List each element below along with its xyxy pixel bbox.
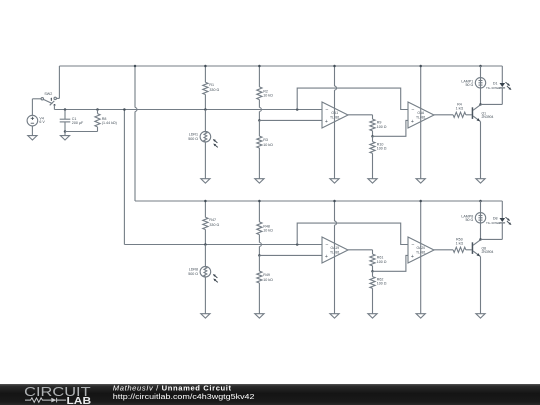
svg-text:−: −: [325, 107, 328, 113]
svg-text:R1: R1: [209, 83, 214, 87]
svg-text:+: +: [411, 254, 414, 260]
svg-text:R9: R9: [377, 120, 382, 124]
svg-text:(1.44 kΩ): (1.44 kΩ): [102, 121, 117, 125]
svg-text:50 Ω: 50 Ω: [466, 218, 474, 222]
svg-text:+: +: [325, 254, 328, 260]
svg-text:R49: R49: [263, 273, 270, 277]
svg-text:10 kΩ: 10 kΩ: [263, 143, 273, 147]
svg-text:1 kΩ: 1 kΩ: [456, 242, 464, 246]
svg-text:100 Ω: 100 Ω: [377, 260, 387, 264]
svg-text:200 µF: 200 µF: [72, 121, 84, 125]
svg-text:http://circuitlab.com/c4h3wgtg: http://circuitlab.com/c4h3wgtg5kv42: [113, 392, 255, 401]
svg-text:50 Ω: 50 Ω: [466, 83, 474, 87]
svg-text:100 Ω: 100 Ω: [377, 147, 387, 151]
svg-text:100 Ω: 100 Ω: [377, 125, 387, 129]
svg-text:LDR8: LDR8: [189, 267, 198, 271]
svg-text:330 Ω: 330 Ω: [209, 223, 219, 227]
svg-text:500 Ω: 500 Ω: [188, 137, 198, 141]
svg-text:+: +: [325, 119, 328, 125]
svg-text:LDR1: LDR1: [189, 132, 198, 136]
svg-text:2N3904: 2N3904: [482, 115, 494, 119]
svg-text:+: +: [411, 119, 414, 125]
svg-text:SW2: SW2: [44, 92, 52, 96]
svg-text:6 V: 6 V: [39, 120, 45, 124]
svg-text:R47: R47: [209, 218, 216, 222]
svg-text:2N3904: 2N3904: [482, 250, 494, 254]
svg-text:−: −: [325, 242, 328, 248]
svg-text:TIL-307EE: TIL-307EE: [486, 221, 500, 225]
svg-text:R10: R10: [377, 142, 384, 146]
svg-text:100 Ω: 100 Ω: [377, 282, 387, 286]
svg-text:R61: R61: [377, 255, 384, 259]
svg-text:−: −: [411, 242, 414, 248]
svg-text:1 kΩ: 1 kΩ: [456, 107, 464, 111]
svg-text:10 kΩ: 10 kΩ: [263, 278, 273, 282]
svg-text:10 kΩ: 10 kΩ: [263, 94, 273, 98]
svg-text:R62: R62: [377, 277, 384, 281]
svg-text:LAB: LAB: [67, 396, 92, 405]
svg-text:10 kΩ: 10 kΩ: [263, 229, 273, 233]
svg-text:330 Ω: 330 Ω: [209, 88, 219, 92]
svg-text:TIL-307EE: TIL-307EE: [486, 86, 500, 90]
svg-text:500 Ω: 500 Ω: [188, 272, 198, 276]
svg-text:−: −: [411, 107, 414, 113]
svg-text:R3: R3: [263, 138, 268, 142]
